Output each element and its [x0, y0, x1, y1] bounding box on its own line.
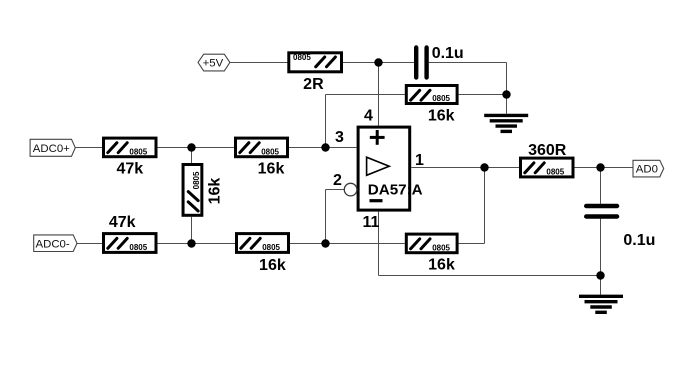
- svg-text:0.1u: 0.1u: [432, 45, 464, 62]
- resistor R6 16k 0805 bottom: [237, 234, 289, 274]
- wire R6 to R7: [290, 243, 405, 245]
- svg-text:11: 11: [363, 214, 380, 231]
- port ADC0+: [30, 139, 75, 156]
- svg-text:47k: 47k: [116, 161, 143, 178]
- svg-text:360R: 360R: [528, 142, 567, 159]
- junction J6: [321, 239, 329, 247]
- wire R5 to R6: [158, 243, 236, 245]
- svg-text:DA57:A: DA57:A: [368, 181, 423, 198]
- wire pin 2 horizontal: [326, 189, 345, 191]
- junction J1: [374, 58, 382, 66]
- resistor R2 16k 0805: [236, 138, 288, 177]
- wire C1 right to corner: [429, 62, 507, 64]
- port ADC0-: [34, 235, 77, 252]
- wire ADC0- to R5: [77, 243, 102, 245]
- resistor R5 47k 0805 bottom: [104, 214, 157, 252]
- wire R4 bottom: [191, 217, 193, 244]
- svg-text:0805: 0805: [262, 243, 280, 252]
- svg-text:0805: 0805: [129, 243, 147, 252]
- pin 2 inverting bubble: [344, 183, 357, 196]
- svg-text:ADC0+: ADC0+: [33, 143, 70, 155]
- svg-text:0805: 0805: [432, 94, 450, 103]
- ground G2: [579, 296, 623, 312]
- svg-text:16k: 16k: [259, 257, 286, 274]
- wire node to R4 top: [191, 148, 193, 164]
- wire down to ground G1: [506, 63, 508, 114]
- wire down to cap C2: [600, 168, 602, 204]
- svg-text:0.1u: 0.1u: [623, 232, 655, 249]
- wire pin 11 vertical: [378, 212, 380, 276]
- junction J5: [187, 239, 195, 247]
- resistor R3 16k 0805 feedback top: [406, 86, 457, 125]
- op-amp U1 DA57:A: [358, 127, 423, 210]
- wire pin 4 supply: [378, 63, 380, 126]
- wire pin 2 vertical: [325, 190, 327, 244]
- svg-text:1: 1: [415, 152, 424, 169]
- svg-text:0805: 0805: [293, 53, 311, 62]
- svg-text:0805: 0805: [432, 243, 450, 252]
- wire node to ground G2: [600, 276, 602, 295]
- wire riser to output: [484, 168, 486, 244]
- capacitor C2 0.1u: [586, 206, 655, 249]
- wire R2 to pin 3: [289, 147, 357, 149]
- svg-text:0805: 0805: [261, 147, 279, 156]
- wire feedback to R3: [326, 94, 405, 96]
- wire pin 1 output: [411, 167, 519, 169]
- wire R8 to AD0: [575, 167, 634, 169]
- wire pin 11 horizontal: [379, 275, 601, 277]
- svg-text:16k: 16k: [258, 161, 285, 178]
- svg-text:0805: 0805: [546, 168, 564, 177]
- ground G1: [484, 115, 528, 131]
- junction J4: [321, 143, 329, 151]
- junction J9: [596, 271, 604, 279]
- capacitor C1 0.1u: [416, 45, 464, 78]
- svg-text:0805: 0805: [129, 147, 147, 156]
- port AD0: [633, 160, 664, 177]
- svg-text:ADC0-: ADC0-: [36, 238, 70, 250]
- wire R7 to riser: [459, 243, 485, 245]
- wire 2R to cap C1: [341, 62, 414, 64]
- resistor 2R 0805: [289, 53, 342, 93]
- resistor R1 47k 0805: [104, 138, 157, 177]
- svg-text:16k: 16k: [207, 178, 224, 205]
- svg-text:AD0: AD0: [636, 163, 658, 175]
- resistor R4 16k 0805 vertical: [183, 164, 223, 215]
- junction J8: [596, 163, 604, 171]
- resistor R8 360R 0805: [521, 142, 574, 177]
- wire ADC0+ to R1: [75, 147, 102, 149]
- junction J3: [187, 143, 195, 151]
- svg-text:16k: 16k: [428, 107, 455, 124]
- wire feedback vertical: [325, 95, 327, 148]
- svg-text:+5V: +5V: [203, 57, 224, 69]
- resistor R7 16k 0805 feedback bottom: [406, 234, 457, 273]
- svg-text:2: 2: [333, 172, 342, 189]
- svg-text:47k: 47k: [109, 214, 136, 231]
- svg-text:16k: 16k: [428, 257, 455, 274]
- wire +5V to R 2R: [230, 62, 288, 64]
- svg-text:0805: 0805: [192, 171, 201, 189]
- junction J7: [480, 163, 488, 171]
- wire R1 to R2: [158, 147, 235, 149]
- svg-text:3: 3: [335, 129, 344, 146]
- power flag +5V: [198, 54, 230, 71]
- svg-text:2R: 2R: [303, 76, 324, 93]
- svg-text:4: 4: [364, 108, 373, 125]
- junction J2: [502, 90, 510, 98]
- wire R3 to ground node: [459, 94, 507, 96]
- wire C2 to node: [600, 219, 602, 276]
